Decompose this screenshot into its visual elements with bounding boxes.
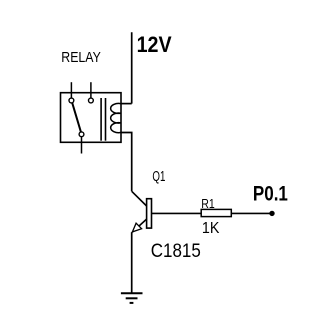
- svg-text:Q1: Q1: [152, 168, 165, 185]
- wire 12V rail vertical: [131, 32, 133, 103]
- transistor Q1 emitter lead: [132, 219, 146, 232]
- relay contact circle 3 (bottom): [79, 132, 84, 137]
- ground bar 2: [126, 297, 138, 299]
- node P0.1 dot: [269, 211, 274, 216]
- relay core line 2: [105, 98, 107, 141]
- transistor Q1 emitter arrow: [132, 223, 141, 232]
- ground bar 3: [130, 302, 134, 304]
- svg-text:C1815: C1815: [151, 241, 201, 262]
- relay contact circle 2: [89, 98, 94, 103]
- svg-text:1K: 1K: [202, 220, 220, 237]
- relay core line 1: [100, 98, 102, 141]
- wire 12V rail to relay coil top: [121, 103, 132, 105]
- relay box: [61, 93, 122, 143]
- relay pin 2 (top middle): [90, 82, 92, 98]
- transistor Q1 base bar: [147, 199, 152, 228]
- ground bar 1: [121, 292, 143, 294]
- wire relay coil bottom to collector: [121, 133, 132, 192]
- wire base lead to resistor: [152, 212, 202, 214]
- wire emitter to ground: [131, 232, 133, 293]
- wire resistor to P0.1: [231, 212, 272, 214]
- relay coil: [111, 103, 121, 132]
- svg-text:RELAY: RELAY: [61, 49, 101, 66]
- relay contact circle 1: [69, 98, 74, 103]
- relay switch arm: [72, 103, 81, 133]
- resistor R1: [201, 209, 231, 216]
- svg-text:12V: 12V: [137, 32, 172, 57]
- relay pin 1 (top left): [70, 82, 72, 98]
- relay pin 3 (bottom): [81, 137, 83, 154]
- svg-text:P0.1: P0.1: [253, 182, 288, 205]
- transistor Q1 collector lead: [132, 191, 147, 206]
